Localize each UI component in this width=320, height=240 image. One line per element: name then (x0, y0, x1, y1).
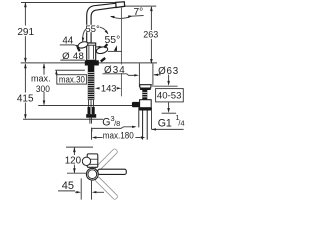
spout tip cap (116, 2, 125, 8)
flexible hose lines (89, 100, 94, 107)
faucet spout tube (87, 3, 117, 43)
svg-text:45: 45 (62, 180, 74, 192)
svg-text:120: 120 (65, 155, 82, 166)
svg-text:300: 300 (36, 84, 50, 94)
svg-text:40-53: 40-53 (157, 91, 182, 102)
svg-text:max.180: max.180 (103, 130, 134, 140)
extension line spout outlet (263 reference) (121, 5, 156, 7)
label diameter 63 (154, 66, 179, 86)
svg-text:143: 143 (101, 82, 117, 93)
label diameter 48 with leader (60, 51, 84, 62)
extension line top (291 reference) (21, 2, 116, 4)
deck bottom surface line (55, 69, 85, 71)
drain flange extension lines (138, 63, 140, 87)
pop-up rod horizontal line (max.300 reference) (38, 105, 132, 107)
label 44 with leader (60, 36, 103, 48)
svg-text:291: 291 (17, 27, 34, 38)
dimension 120 (64, 147, 93, 173)
dimension 415 (17, 63, 34, 119)
spout tip centerline (120, 8, 122, 97)
joystick knob tilted (oval) (96, 44, 122, 61)
drain tailpipe (142, 111, 144, 140)
dimension 263 (143, 6, 158, 64)
dimension max.300 (31, 63, 51, 105)
label diameter 34 with leader (102, 65, 160, 77)
plan view: lever handle (87, 154, 98, 167)
drain threaded stem (142, 90, 147, 100)
angle 55 left arc (82, 24, 100, 42)
svg-text:263: 263 (143, 30, 158, 40)
dimension 45 (58, 178, 104, 199)
angle 7 arc and label (110, 7, 144, 18)
deck top surface line (21, 62, 157, 64)
angle 55 right arc (100, 27, 120, 46)
pop-up rod tail (89, 118, 91, 124)
line under unit (415 reference) (23, 118, 103, 120)
faucet body (87, 43, 96, 60)
drain flange cap (140, 85, 152, 88)
dimension 40-53 box (156, 89, 184, 114)
drain body (140, 100, 152, 108)
svg-text:/8: /8 (114, 119, 120, 128)
hose nuts (88, 107, 91, 114)
dimension max.180 (92, 128, 146, 141)
joystick knob tilted left (oval) (77, 41, 88, 52)
svg-text:55°: 55° (85, 24, 100, 35)
dimension max.30 box (55, 70, 86, 84)
svg-text:7°: 7° (134, 7, 144, 18)
threaded shank (88, 66, 95, 100)
label G 1 1/4 with leader (152, 111, 185, 131)
svg-text:G: G (102, 116, 110, 128)
label G 3/8 with leader (92, 114, 137, 132)
svg-text:Ø34: Ø34 (104, 65, 126, 76)
svg-text:/4: /4 (178, 119, 184, 128)
svg-text:max.30: max.30 (59, 75, 85, 85)
plan view: spout bar (98, 169, 127, 174)
plan view: body circles (86, 168, 98, 180)
pop-up rod clamp (132, 102, 140, 107)
svg-text:max.: max. (31, 74, 51, 84)
svg-text:415: 415 (17, 94, 34, 105)
plan view: swivel spout positions (diagonal bars) (95, 148, 118, 171)
svg-text:G1: G1 (158, 117, 172, 129)
faucet base escutcheon (85, 60, 99, 65)
dimension 291 (17, 2, 34, 63)
dimension 143 spout reach (95, 82, 121, 93)
